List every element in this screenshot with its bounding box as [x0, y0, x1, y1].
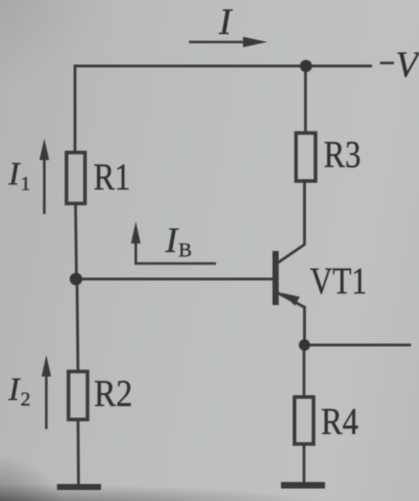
wire top rail	[74, 65, 372, 68]
wire base horizontal	[75, 278, 273, 281]
ground left	[57, 484, 101, 490]
svg-text:I1: I1	[8, 157, 31, 196]
svg-text:VT1: VT1	[310, 261, 367, 303]
current arrow I2	[42, 355, 52, 429]
wire base node to R2	[77, 278, 78, 373]
wire left vertical upper	[74, 65, 77, 154]
transistor VT1 base bar	[273, 251, 279, 305]
current arrow IB	[131, 222, 216, 265]
resistor R3	[296, 133, 316, 181]
power label -V : minus	[380, 62, 394, 65]
wire R4 to ground	[303, 443, 306, 485]
wire output horizontal	[305, 344, 412, 347]
svg-text:I: I	[218, 2, 233, 43]
resistor R4	[295, 397, 314, 444]
current arrow I	[189, 37, 268, 47]
wire R3 top (rail to R3)	[304, 65, 307, 135]
svg-text:R4: R4	[321, 401, 359, 443]
transistor VT1 collector lead	[276, 245, 305, 265]
resistor R1	[67, 153, 86, 204]
svg-text:V: V	[396, 45, 419, 86]
svg-text:R3: R3	[324, 134, 361, 176]
node dot top rail/R3	[300, 60, 312, 72]
resistor R2	[69, 372, 88, 420]
transistor VT1 emitter lead	[276, 292, 305, 308]
wire left vertical R1 to base node	[76, 203, 77, 280]
wire R3 bottom to collector bend	[303, 180, 306, 245]
wire emitter vertical to output node	[303, 306, 306, 346]
wire R2 to ground	[77, 418, 80, 486]
wire output node to R4	[303, 344, 306, 398]
node dot base	[70, 273, 83, 286]
current arrow I1	[39, 139, 49, 215]
ground right	[281, 482, 325, 489]
transistor VT1 emitter arrowhead	[282, 293, 300, 306]
svg-text:R1: R1	[94, 157, 131, 199]
node dot emitter/output	[299, 339, 310, 350]
svg-text:I2: I2	[8, 372, 31, 411]
svg-text:R2: R2	[94, 373, 133, 415]
svg-text:IB: IB	[165, 220, 192, 262]
